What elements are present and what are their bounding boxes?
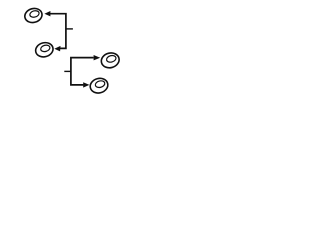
arrowhead into node N4	[83, 82, 89, 87]
node N3 (double ellipse, right-top)	[100, 51, 121, 70]
wire: bracket 2 (top horizontal, vertical, bottom horizontal)	[71, 58, 94, 85]
wire: stub tick of bracket 1	[66, 28, 73, 30]
node N2 (double ellipse, middle-left)	[34, 41, 55, 59]
wire: bracket 1 (top horizontal, vertical, bottom horizontal)	[50, 14, 66, 49]
arrowhead into node N1	[44, 11, 50, 16]
arrowhead into node N3	[94, 55, 101, 60]
arrowhead into node N2	[54, 46, 60, 52]
wire: stub tick of bracket 2	[64, 70, 71, 72]
node N4 (double ellipse, right-bottom)	[89, 76, 110, 95]
node N1 (double ellipse, top-left)	[23, 7, 43, 25]
